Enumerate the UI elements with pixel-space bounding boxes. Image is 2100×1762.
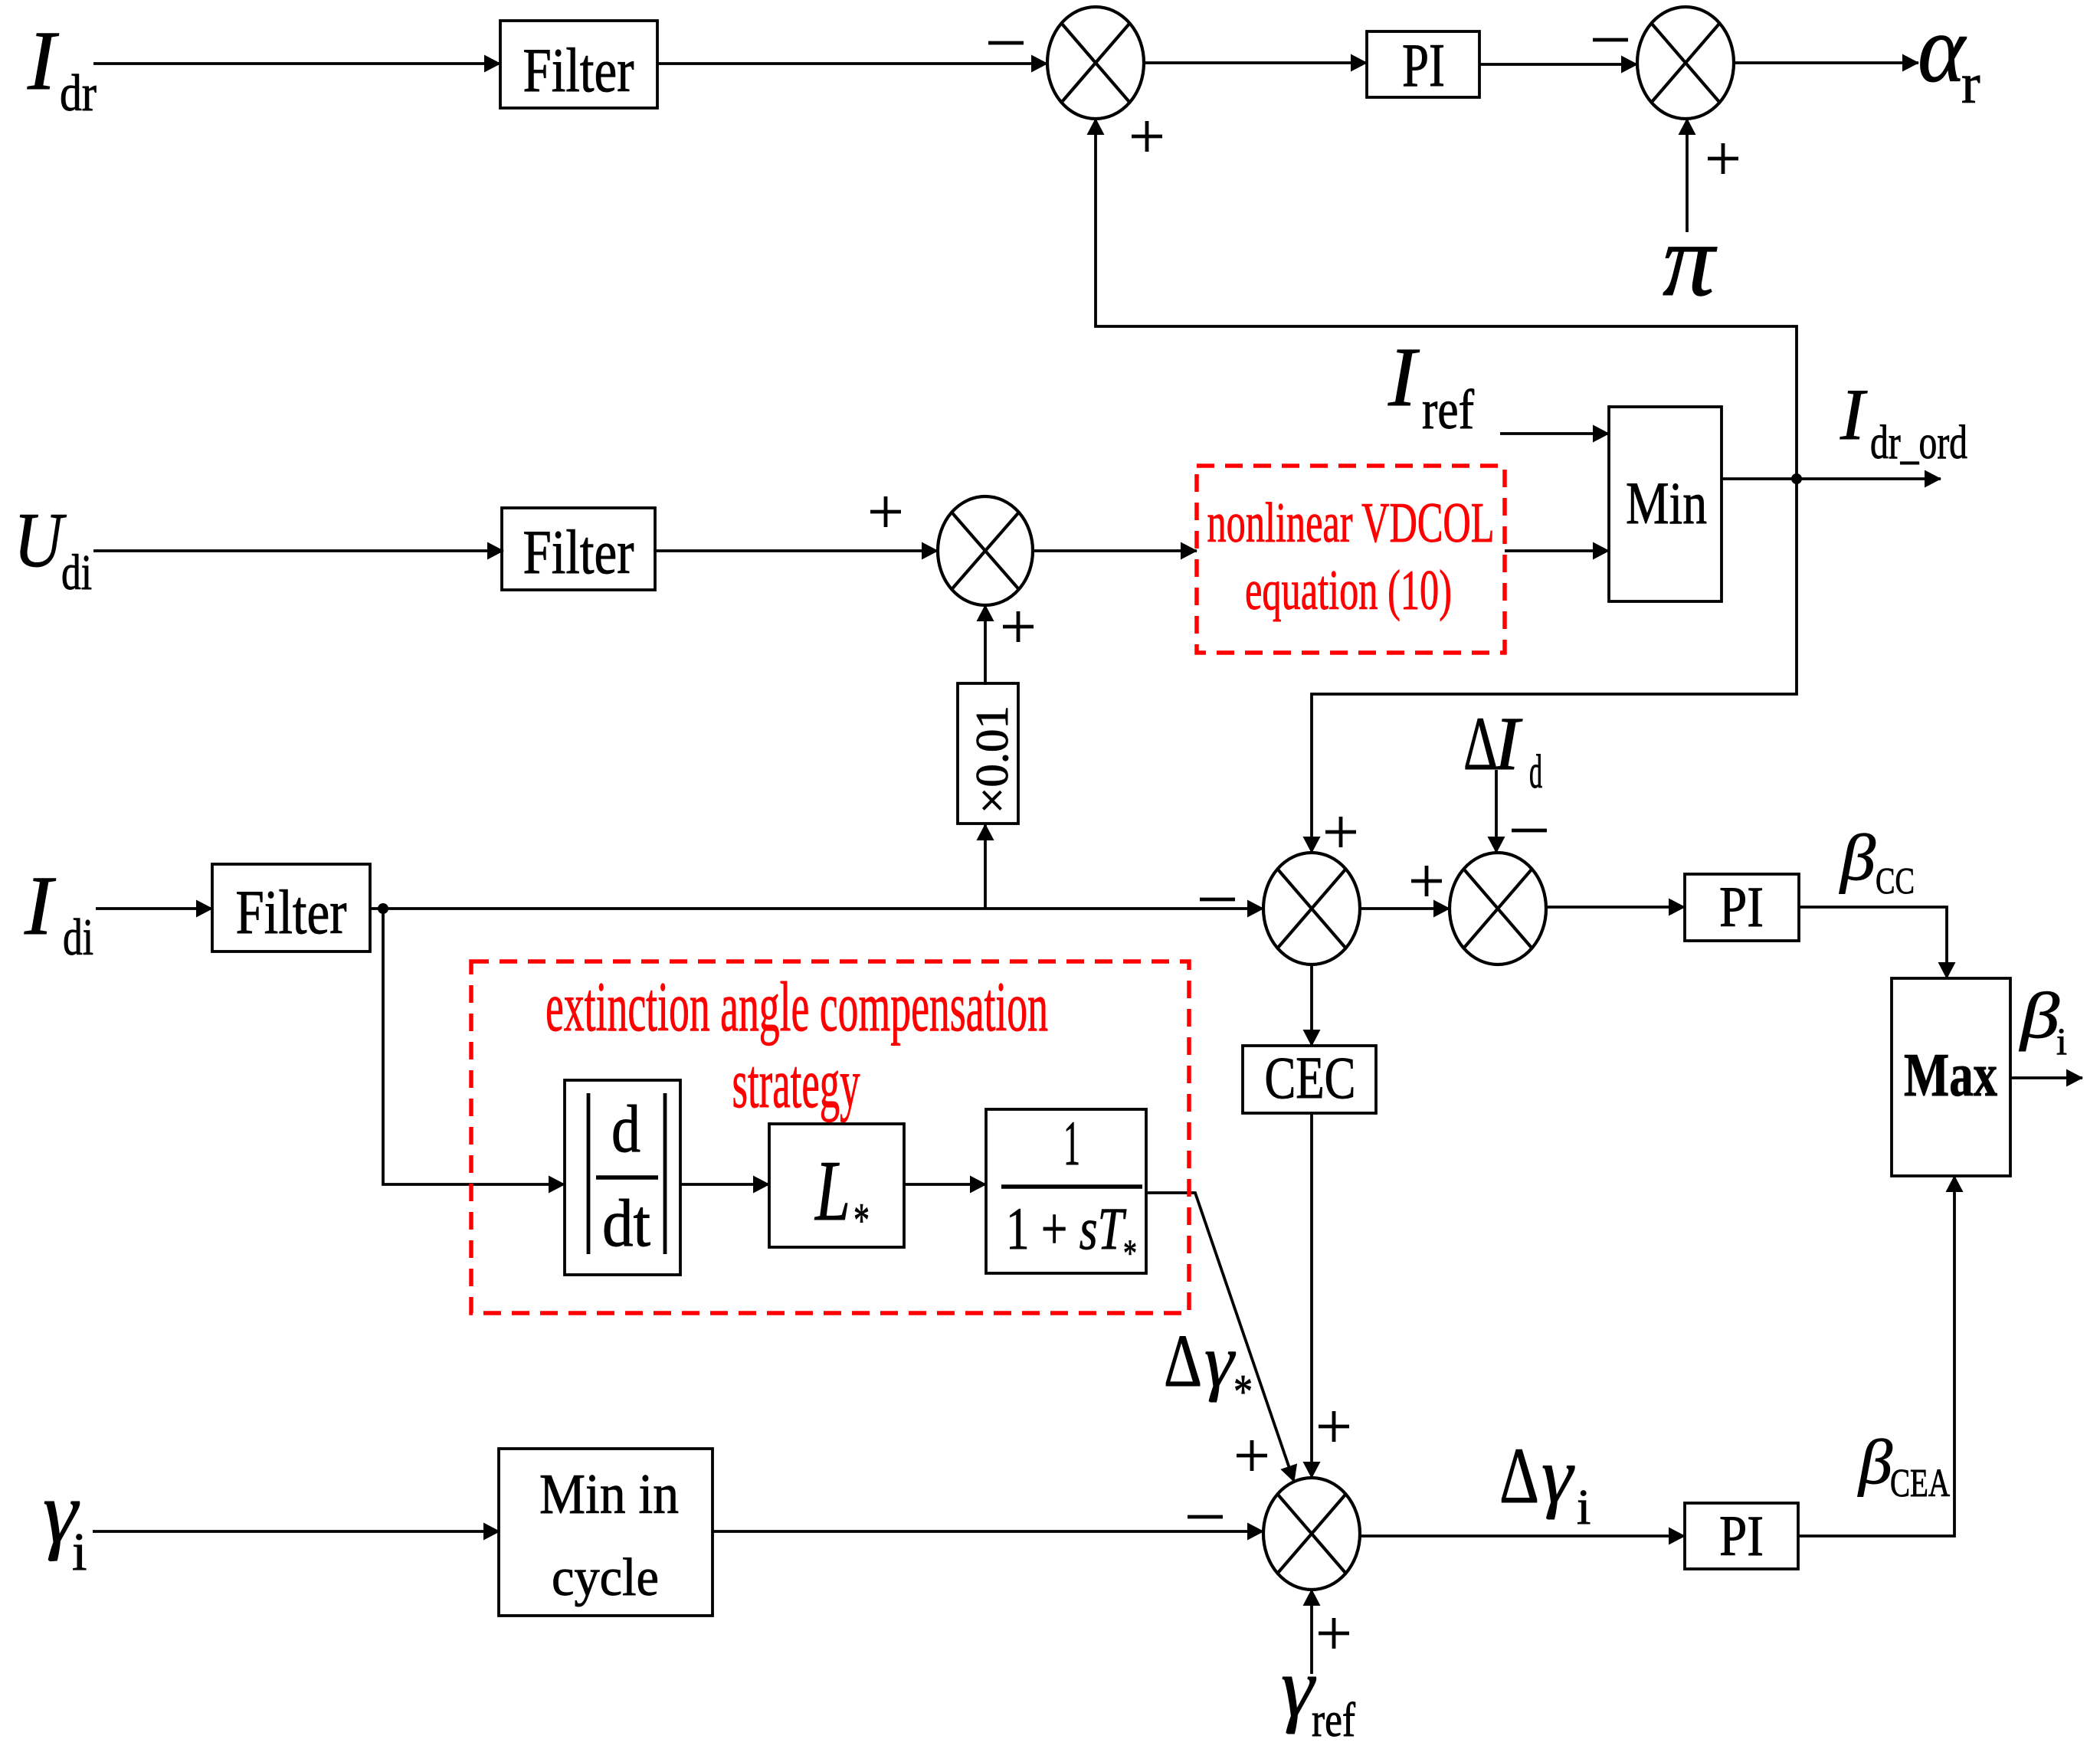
svg-text:ref: ref: [1422, 378, 1475, 440]
svg-text:cycle: cycle: [552, 1548, 659, 1607]
svg-text:I: I: [1840, 374, 1868, 455]
svg-text:di: di: [63, 908, 93, 966]
svg-text:I: I: [1387, 330, 1420, 424]
svg-text:I: I: [24, 859, 56, 952]
svg-text:i: i: [2056, 1020, 2067, 1063]
svg-text:β: β: [2019, 980, 2060, 1052]
svg-text:Filter: Filter: [236, 877, 347, 947]
svg-text:Δ: Δ: [1164, 1320, 1202, 1402]
svg-text:β: β: [1839, 820, 1876, 894]
svg-text:dt: dt: [602, 1187, 650, 1261]
svg-text:Min in: Min in: [539, 1463, 679, 1526]
svg-text:L: L: [814, 1144, 850, 1239]
svg-text:PI: PI: [1719, 876, 1764, 939]
svg-text:*: *: [1233, 1366, 1253, 1418]
svg-text:β: β: [1857, 1426, 1893, 1497]
svg-text:r: r: [1961, 53, 1980, 116]
svg-text:CEA: CEA: [1890, 1462, 1950, 1505]
svg-text:equation (10): equation (10): [1245, 559, 1452, 622]
svg-text:U: U: [14, 497, 67, 584]
svg-text:I: I: [1493, 701, 1523, 786]
svg-text:×0.01: ×0.01: [967, 706, 1017, 814]
svg-text:Filter: Filter: [523, 35, 634, 105]
svg-text:α: α: [1918, 0, 1967, 103]
svg-text:extinction angle compensation: extinction angle compensation: [545, 968, 1048, 1046]
svg-text:i: i: [72, 1523, 87, 1582]
svg-text:I: I: [27, 14, 59, 107]
svg-text:dr_ord: dr_ord: [1870, 417, 1967, 469]
svg-text:Max: Max: [1904, 1042, 1997, 1109]
svg-text:*: *: [1123, 1231, 1137, 1274]
svg-text:ref: ref: [1312, 1692, 1356, 1747]
svg-text:d: d: [1529, 746, 1542, 798]
svg-text:strategy: strategy: [732, 1044, 860, 1122]
svg-text:γ: γ: [1204, 1320, 1236, 1403]
svg-text:di: di: [61, 545, 92, 601]
svg-text:1: 1: [1063, 1108, 1080, 1178]
svg-text:1 + sT: 1 + sT: [1006, 1197, 1127, 1263]
svg-text:CC: CC: [1876, 860, 1915, 902]
svg-text:i: i: [1577, 1479, 1591, 1535]
svg-text:Min: Min: [1626, 470, 1707, 536]
svg-text:PI: PI: [1402, 32, 1445, 100]
svg-text:nonlinear VDCOL: nonlinear VDCOL: [1207, 492, 1495, 555]
svg-text:d: d: [611, 1092, 640, 1167]
svg-text:Filter: Filter: [523, 517, 634, 587]
svg-text:CEC: CEC: [1265, 1044, 1356, 1111]
svg-text:Δ: Δ: [1463, 701, 1498, 786]
svg-text:*: *: [853, 1194, 870, 1247]
svg-text:PI: PI: [1719, 1505, 1764, 1568]
svg-text:Δ: Δ: [1499, 1432, 1539, 1520]
svg-text:dr: dr: [60, 64, 97, 122]
svg-text:π: π: [1663, 203, 1718, 318]
svg-text:γ: γ: [1541, 1432, 1575, 1520]
